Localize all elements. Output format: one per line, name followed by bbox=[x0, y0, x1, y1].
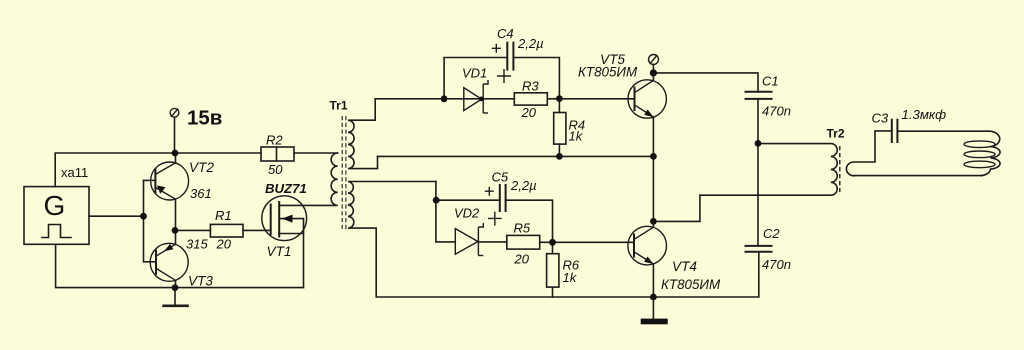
svg-text:КТ805ИМ: КТ805ИМ bbox=[661, 277, 721, 292]
svg-text:2,2µ: 2,2µ bbox=[510, 178, 537, 193]
svg-text:VT3: VT3 bbox=[188, 274, 213, 289]
svg-text:VT1: VT1 bbox=[267, 244, 292, 259]
svg-text:R1: R1 bbox=[215, 208, 232, 223]
svg-text:C2: C2 bbox=[763, 226, 780, 241]
svg-text:R3: R3 bbox=[522, 79, 539, 94]
svg-text:C1: C1 bbox=[762, 74, 779, 89]
svg-text:361: 361 bbox=[190, 186, 212, 201]
svg-text:VT4: VT4 bbox=[672, 259, 697, 274]
svg-text:R2: R2 bbox=[266, 133, 283, 148]
svg-text:20: 20 bbox=[514, 252, 530, 267]
svg-text:xa11: xa11 bbox=[61, 165, 88, 180]
svg-text:20: 20 bbox=[216, 237, 232, 252]
svg-text:1.3мкф: 1.3мкф bbox=[902, 107, 947, 122]
svg-text:C4: C4 bbox=[497, 26, 514, 41]
svg-text:VT2: VT2 bbox=[189, 160, 214, 175]
svg-text:315: 315 bbox=[186, 237, 208, 252]
svg-text:2,2µ: 2,2µ bbox=[517, 36, 544, 51]
svg-text:1k: 1k bbox=[563, 270, 578, 285]
svg-text:C5: C5 bbox=[492, 170, 509, 185]
svg-text:470n: 470n bbox=[762, 257, 791, 272]
svg-text:Tr2: Tr2 bbox=[827, 127, 845, 141]
svg-text:BUZ71: BUZ71 bbox=[265, 181, 307, 196]
svg-text:VD2: VD2 bbox=[454, 206, 480, 221]
svg-text:15в: 15в bbox=[187, 107, 222, 130]
svg-text:470n: 470n bbox=[762, 104, 791, 119]
svg-text:G: G bbox=[44, 190, 66, 221]
svg-text:R5: R5 bbox=[514, 221, 531, 236]
svg-text:50: 50 bbox=[268, 162, 283, 177]
svg-text:Tr1: Tr1 bbox=[330, 99, 348, 113]
svg-text:1k: 1k bbox=[569, 129, 584, 144]
svg-text:C3: C3 bbox=[872, 111, 889, 126]
svg-text:КТ805ИМ: КТ805ИМ bbox=[578, 64, 638, 79]
svg-text:20: 20 bbox=[521, 105, 537, 120]
svg-text:VD1: VD1 bbox=[462, 66, 487, 81]
